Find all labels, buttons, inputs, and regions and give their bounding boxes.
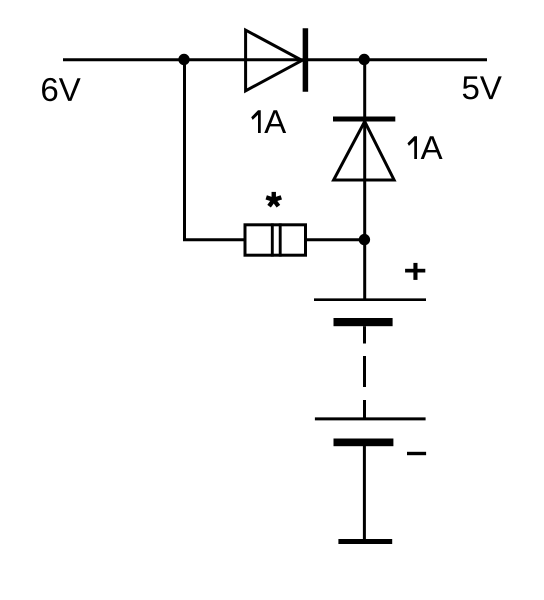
junction dot left — [178, 54, 189, 65]
wire vertical right upper — [363, 60, 366, 301]
fuse F1 body — [245, 225, 306, 255]
wire horizontal to fuse left — [183, 238, 245, 241]
battery BT1 negative plate — [334, 318, 393, 326]
wire fuse to node — [306, 238, 365, 241]
wire vertical bottom — [363, 446, 366, 541]
fuse F1 inner line 1 — [271, 223, 274, 256]
wire vertical left — [183, 60, 186, 240]
diode D2 triangle — [334, 122, 395, 181]
label 1A for D1 — [251, 110, 286, 133]
label 1A for D2 — [407, 136, 442, 159]
diode D1 triangle — [246, 30, 302, 91]
dashed link segment 2 — [363, 356, 366, 387]
battery BT2 minus label — [407, 452, 426, 455]
battery BT1 positive plate — [314, 298, 426, 301]
wire top horizontal — [63, 58, 487, 61]
fuse F1 inner line 2 — [279, 223, 282, 256]
battery BT2 positive plate — [315, 417, 426, 420]
diode D2 cathode bar — [333, 117, 395, 122]
diode D1 cathode bar — [303, 28, 309, 91]
junction dot middle — [359, 234, 370, 245]
junction dot right — [359, 54, 370, 65]
label asterisk for fuse — [266, 192, 281, 206]
node 6V label — [42, 78, 81, 101]
node 5V label — [463, 76, 502, 99]
dashed link segment 1 — [363, 326, 366, 343]
dashed link segment 3 — [363, 400, 366, 420]
terminal bar bottom — [338, 539, 392, 544]
battery BT1 plus label — [405, 263, 425, 280]
battery BT2 negative plate — [334, 439, 394, 447]
